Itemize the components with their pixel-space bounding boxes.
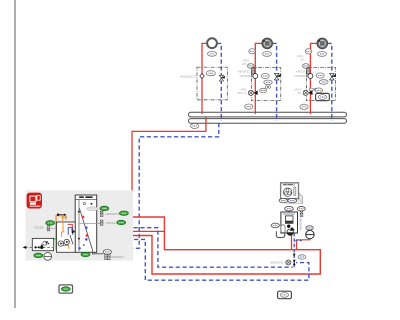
svg-text:-T52/S4-: -T52/S4- [105, 221, 116, 225]
svg-text:+I43/5/20: +I43/5/20 [294, 74, 306, 78]
svg-text:-T52/S5-: -T52/S5- [33, 226, 44, 230]
svg-text:20: 20 [301, 58, 305, 62]
svg-text:225.2,3: 225.2,3 [237, 91, 247, 95]
svg-text:-WS02/212.2: -WS02/212.2 [179, 74, 196, 78]
svg-text:+W75/2B: +W75/2B [239, 74, 251, 78]
svg-text:+WS02/F6-: +WS02/F6- [105, 212, 120, 216]
svg-text:52: 52 [298, 91, 302, 95]
svg-text:-WS02/211.4: -WS02/211.4 [270, 261, 287, 265]
svg-text:WS02/F4-: WS02/F4- [111, 255, 124, 259]
svg-text:+WS02/W1: +WS02/W1 [299, 217, 303, 231]
